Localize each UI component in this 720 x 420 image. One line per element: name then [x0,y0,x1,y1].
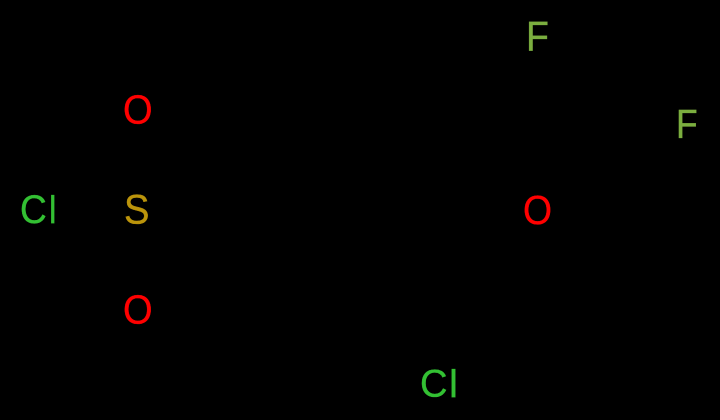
atom Cl (sulfonyl chloride) : C [20,190,47,230]
benzene ring [247,85,481,355]
bond O-CHF2 [554,148,610,196]
bond CHF2-F top [548,58,610,148]
atom O (sulfonyl O, bottom) [123,290,153,331]
double bond S=O bottom [131,231,147,287]
atom Cl (ring 3-chloro) : C [420,364,448,403]
double bond S=O top [131,132,147,188]
bond S-ring [162,152,247,196]
bond CHF2-F right [610,132,672,148]
atom O (sulfonyl O, top) [123,90,153,131]
atom Cl (ring 3-chloro) : l [449,365,458,404]
bond ring-Cl [448,287,481,362]
atom S (sulfonyl) [124,189,149,231]
atom F (upper) [526,16,549,58]
ring double bond inner lines [262,111,466,329]
bond ring-O ether [481,152,521,196]
atom F (right) [676,104,698,145]
bond S-Cl [62,205,105,213]
atom Cl (sulfonyl chloride) : l [49,191,56,230]
atom O (difluoromethoxy ether) [523,190,552,231]
